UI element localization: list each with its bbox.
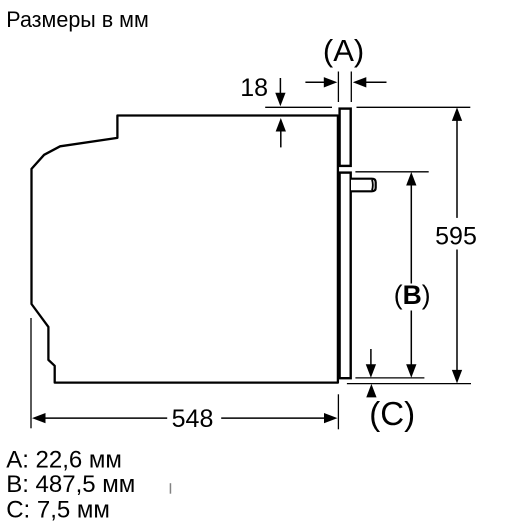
svg-text:Размеры в мм: Размеры в мм	[6, 7, 149, 32]
svg-text:(A): (A)	[323, 33, 364, 68]
svg-text:548: 548	[172, 405, 214, 433]
svg-text:(B): (B)	[394, 280, 431, 310]
svg-text:A: 22,6 мм: A: 22,6 мм	[6, 446, 122, 473]
svg-text:595: 595	[435, 223, 477, 251]
svg-text:(C): (C)	[369, 395, 415, 432]
svg-text:18: 18	[240, 74, 268, 102]
svg-text:B: 487,5 мм: B: 487,5 мм	[6, 471, 135, 498]
svg-text:C: 7,5 мм: C: 7,5 мм	[6, 497, 110, 524]
